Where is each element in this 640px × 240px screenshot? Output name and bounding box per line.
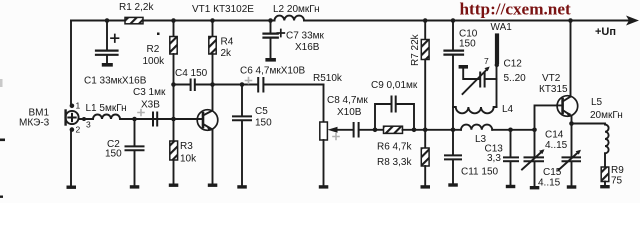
edge artifact dash upper	[0, 139, 5, 142]
wire microphone pin 2 to ground	[70, 130, 72, 186]
node emitter junction	[569, 121, 574, 126]
resistor R1	[125, 17, 143, 23]
ground (R8)	[421, 185, 431, 188]
svg-text:R8 3,3k: R8 3,3k	[377, 157, 412, 168]
ground (C11)	[448, 183, 458, 186]
wire microphone pin 3 to L1	[79, 118, 93, 120]
capacitor C10	[445, 21, 464, 55]
capacitor C8	[354, 123, 375, 137]
svg-text:5..20: 5..20	[504, 73, 527, 84]
wire top supply rail right segment with +Un arrow	[304, 20, 630, 22]
svg-text:R9: R9	[611, 165, 624, 176]
capacitor C9 bypass	[375, 97, 414, 130]
svg-text:L4: L4	[502, 104, 514, 115]
resistor R2	[170, 21, 177, 85]
svg-text:Х10В: Х10В	[337, 107, 362, 118]
microphone BM1	[65, 111, 78, 125]
inductor L4	[453, 107, 497, 113]
node microphone pin 2	[70, 127, 75, 132]
wire L1 to C2 node	[120, 118, 157, 120]
svg-text:L2 20мкГн: L2 20мкГн	[273, 4, 320, 15]
ground (tank top)	[459, 65, 468, 69]
svg-text:R1 2,2k: R1 2,2k	[119, 2, 154, 13]
svg-text:R3: R3	[180, 141, 193, 152]
node R7 rail junction	[423, 18, 428, 23]
artifact dot	[157, 33, 160, 36]
inductor L2	[275, 16, 304, 21]
edge artifact gray smudge	[0, 79, 3, 87]
node +Un arrowhead	[626, 16, 639, 26]
svg-text:C11 150: C11 150	[461, 167, 499, 178]
svg-text:C7 33мк: C7 33мк	[286, 31, 325, 42]
gray plus mark near C3	[138, 110, 144, 116]
resistor R4	[209, 21, 216, 85]
capacitor C1 electrolytic	[96, 21, 118, 64]
wire collector to C5 and C6	[213, 84, 258, 86]
wire R6 node to oscillator node	[425, 129, 461, 131]
svg-text:МКЭ-3: МКЭ-3	[19, 118, 50, 129]
svg-text:4..15: 4..15	[545, 140, 568, 151]
capacitor C5	[233, 85, 251, 186]
ground (microphone)	[67, 186, 77, 189]
edge artifact dash lower	[0, 196, 3, 198]
capacitor C2	[126, 119, 144, 186]
node C10 rail junction	[451, 18, 456, 23]
ground (C7)	[265, 58, 276, 62]
node R6/C9 left junction	[373, 128, 378, 133]
capacitor C4	[174, 80, 213, 91]
resistor R6	[375, 126, 425, 133]
svg-text:150: 150	[459, 39, 476, 50]
wire R2 to base node	[173, 85, 175, 120]
svg-text:100k: 100k	[143, 56, 166, 67]
wire tank left side	[452, 55, 454, 130]
resistor R9	[601, 153, 609, 185]
wire tank right side	[496, 65, 498, 107]
node R2 rail junction	[171, 18, 176, 23]
plus mark C7	[277, 30, 284, 37]
ground (C1)	[102, 63, 113, 67]
wire C3 to base node	[157, 118, 173, 120]
svg-text:http://cxem.net: http://cxem.net	[460, 0, 571, 18]
svg-text:КТ315: КТ315	[539, 84, 568, 95]
wire ground stub to tank top	[463, 69, 480, 79]
capacitor C6	[258, 78, 323, 92]
node C4 left junction	[171, 82, 176, 87]
svg-text:R2: R2	[147, 44, 160, 55]
svg-text:C6 4,7мкХ10В: C6 4,7мкХ10В	[240, 66, 306, 77]
wire emitter to L5	[572, 123, 606, 125]
plus mark C1	[111, 35, 119, 43]
resistor R7	[421, 21, 429, 130]
svg-text:C8 4,7мк: C8 4,7мк	[327, 95, 368, 106]
svg-text:R6 4,7k: R6 4,7k	[377, 142, 412, 153]
node C11/L4 junction	[451, 128, 456, 133]
svg-text:С3 1мк: С3 1мк	[133, 87, 166, 98]
inductor L1	[93, 115, 120, 120]
svg-text:R510k: R510k	[313, 73, 343, 84]
trimmer capacitor C12	[463, 67, 497, 95]
ground (C13)	[506, 185, 516, 188]
ground (R9)	[600, 185, 610, 188]
svg-text:C15: C15	[543, 167, 562, 178]
potentiometer R5	[320, 85, 352, 186]
node base of VT1	[171, 117, 176, 122]
node C5 junction	[240, 82, 245, 87]
gray plus mark near C8	[333, 134, 339, 140]
svg-text:10k: 10k	[180, 154, 197, 165]
svg-text:20мкГн: 20мкГн	[590, 110, 623, 121]
svg-text:2k: 2k	[221, 48, 233, 59]
ground (R5)	[319, 185, 329, 188]
node microphone pin 1	[70, 104, 75, 109]
svg-text:C14: C14	[545, 130, 564, 141]
node R4 rail junction	[210, 18, 215, 23]
svg-text:WA1: WA1	[491, 22, 513, 33]
trimmer capacitor C15	[559, 124, 582, 186]
svg-text:75: 75	[611, 176, 623, 187]
ground (R3)	[169, 184, 179, 187]
node R7/R8 junction	[423, 128, 428, 133]
svg-text:150: 150	[255, 118, 272, 129]
capacitor C11	[445, 130, 461, 184]
transistor VT1	[174, 85, 218, 184]
svg-text:C12: C12	[504, 59, 523, 70]
inductor L5	[605, 125, 609, 154]
node C14/base junction	[532, 128, 537, 133]
node C13 junction	[508, 128, 513, 133]
ground (C14)	[530, 186, 540, 189]
svg-text:VT1 КТ3102Е: VT1 КТ3102Е	[192, 4, 254, 15]
svg-text:2: 2	[76, 125, 81, 135]
node VT2 collector rail junction	[568, 18, 573, 23]
trimmer capacitor C14	[522, 130, 545, 186]
ground (VT1 emitter)	[208, 184, 218, 187]
svg-text:C9 0,01мк: C9 0,01мк	[371, 80, 418, 91]
node antenna junction	[495, 63, 499, 67]
svg-text:R4: R4	[221, 37, 234, 48]
node collector junction	[210, 82, 215, 87]
inductor L3	[461, 125, 492, 130]
transistor VT2	[535, 21, 578, 130]
wire L3 to C13	[492, 129, 534, 131]
svg-text:R7 22k: R7 22k	[410, 33, 421, 66]
svg-text:Х3В: Х3В	[141, 100, 160, 111]
svg-text:7: 7	[484, 56, 489, 66]
svg-text:VT2: VT2	[542, 73, 561, 84]
capacitor C7 electrolytic	[264, 21, 278, 59]
ground (C5)	[237, 185, 247, 188]
antenna WA1	[495, 36, 499, 63]
ground (C2)	[130, 185, 140, 188]
svg-text:1: 1	[76, 101, 81, 111]
node C9 right junction	[412, 128, 417, 133]
svg-text:Х16В: Х16В	[295, 42, 320, 53]
capacitor C3	[153, 113, 157, 126]
svg-text:L5: L5	[591, 97, 603, 108]
svg-text:3,3: 3,3	[487, 153, 501, 164]
node C7 rail junction	[268, 18, 273, 23]
node C1 rail junction	[105, 18, 110, 23]
svg-text:4..15: 4..15	[538, 178, 561, 189]
svg-text:C4 150: C4 150	[175, 68, 208, 79]
svg-text:L1 5мкГн: L1 5мкГн	[86, 103, 127, 114]
node L1/C2/C3 junction	[132, 117, 137, 122]
svg-text:3: 3	[86, 120, 91, 130]
svg-text:150: 150	[105, 149, 122, 160]
svg-text:C1 33мкХ16В: C1 33мкХ16В	[84, 76, 147, 87]
ground (C15)	[567, 185, 577, 188]
resistor R8	[421, 130, 429, 186]
resistor R3	[170, 119, 178, 184]
gray plus mark near C6	[246, 78, 252, 84]
svg-text:+Uп: +Uп	[595, 26, 616, 38]
capacitor C13	[504, 130, 518, 185]
svg-text:C5: C5	[255, 106, 268, 117]
wire left vertical from rail to microphone pin 1	[70, 21, 72, 106]
wire top supply rail left segment	[71, 20, 275, 22]
